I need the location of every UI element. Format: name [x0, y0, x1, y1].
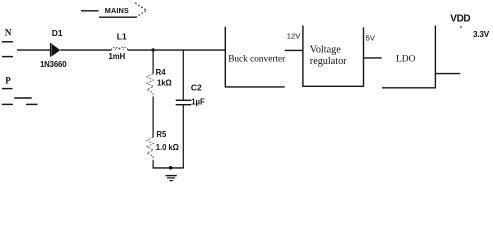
block Voltage regulator right edge	[363, 27, 365, 86]
svg-text:P: P	[5, 76, 11, 86]
wire diode to inductor L1	[60, 49, 111, 51]
svg-text:1mH: 1mH	[109, 52, 126, 61]
svg-text:regulator: regulator	[310, 56, 347, 67]
svg-text:R5: R5	[156, 130, 167, 139]
wire inductor to Buck converter	[128, 49, 226, 51]
svg-text:N: N	[5, 28, 12, 38]
ground	[166, 176, 177, 181]
wire to MAINS flag	[81, 10, 99, 12]
svg-text:1µF: 1µF	[191, 98, 205, 107]
svg-text:Buck converter: Buck converter	[228, 54, 286, 64]
svg-text:L1: L1	[117, 32, 127, 42]
svg-text:12V: 12V	[287, 32, 301, 41]
resistor R4	[147, 74, 154, 97]
wire Buck converter to Voltage regulator	[285, 49, 303, 51]
svg-text:MAINS: MAINS	[105, 6, 129, 15]
block Buck converter left edge	[224, 27, 226, 87]
block Voltage regulator left edge	[302, 26, 304, 87]
wire Voltage regulator to LDO	[364, 57, 382, 59]
junction dot node ground	[169, 166, 173, 170]
wire N to diode D1	[17, 49, 50, 51]
block Voltage regulator bottom edge	[302, 85, 364, 87]
capacitor C2	[176, 100, 192, 104]
terminal N	[2, 28, 13, 57]
terminal P	[2, 76, 38, 105]
svg-text:1.0 kΩ: 1.0 kΩ	[156, 143, 179, 152]
block Buck converter bottom edge	[225, 86, 285, 88]
svg-text:R4: R4	[156, 68, 167, 77]
off-page connector flag MAINS	[99, 3, 147, 17]
wire junction to R4	[152, 50, 154, 74]
wire R4 to R5	[152, 97, 154, 138]
svg-text:D1: D1	[52, 28, 63, 38]
block LDO bottom edge	[382, 87, 436, 89]
wire junction to C2	[182, 50, 184, 100]
inductor L1	[112, 47, 128, 50]
svg-text:LDO: LDO	[396, 54, 416, 64]
resistor R5	[147, 137, 154, 160]
svg-text:C2: C2	[191, 82, 202, 92]
block LDO right edge	[434, 26, 436, 89]
svg-text:VDD: VDD	[450, 13, 470, 24]
bottom rail wire	[153, 167, 184, 169]
svg-text:1N3660: 1N3660	[40, 60, 67, 69]
svg-text:1kΩ: 1kΩ	[157, 78, 172, 87]
svg-text:3.3V: 3.3V	[473, 30, 490, 39]
junction dot node R4 top	[151, 48, 154, 51]
svg-text:Voltage: Voltage	[310, 45, 341, 56]
node dot below VDD	[460, 26, 462, 28]
wire C2 to bottom rail	[182, 105, 184, 168]
svg-text:5V: 5V	[366, 33, 376, 42]
wire R5 to bottom rail	[152, 160, 154, 168]
wire LDO output stub	[436, 73, 460, 75]
diode D1	[50, 43, 60, 57]
